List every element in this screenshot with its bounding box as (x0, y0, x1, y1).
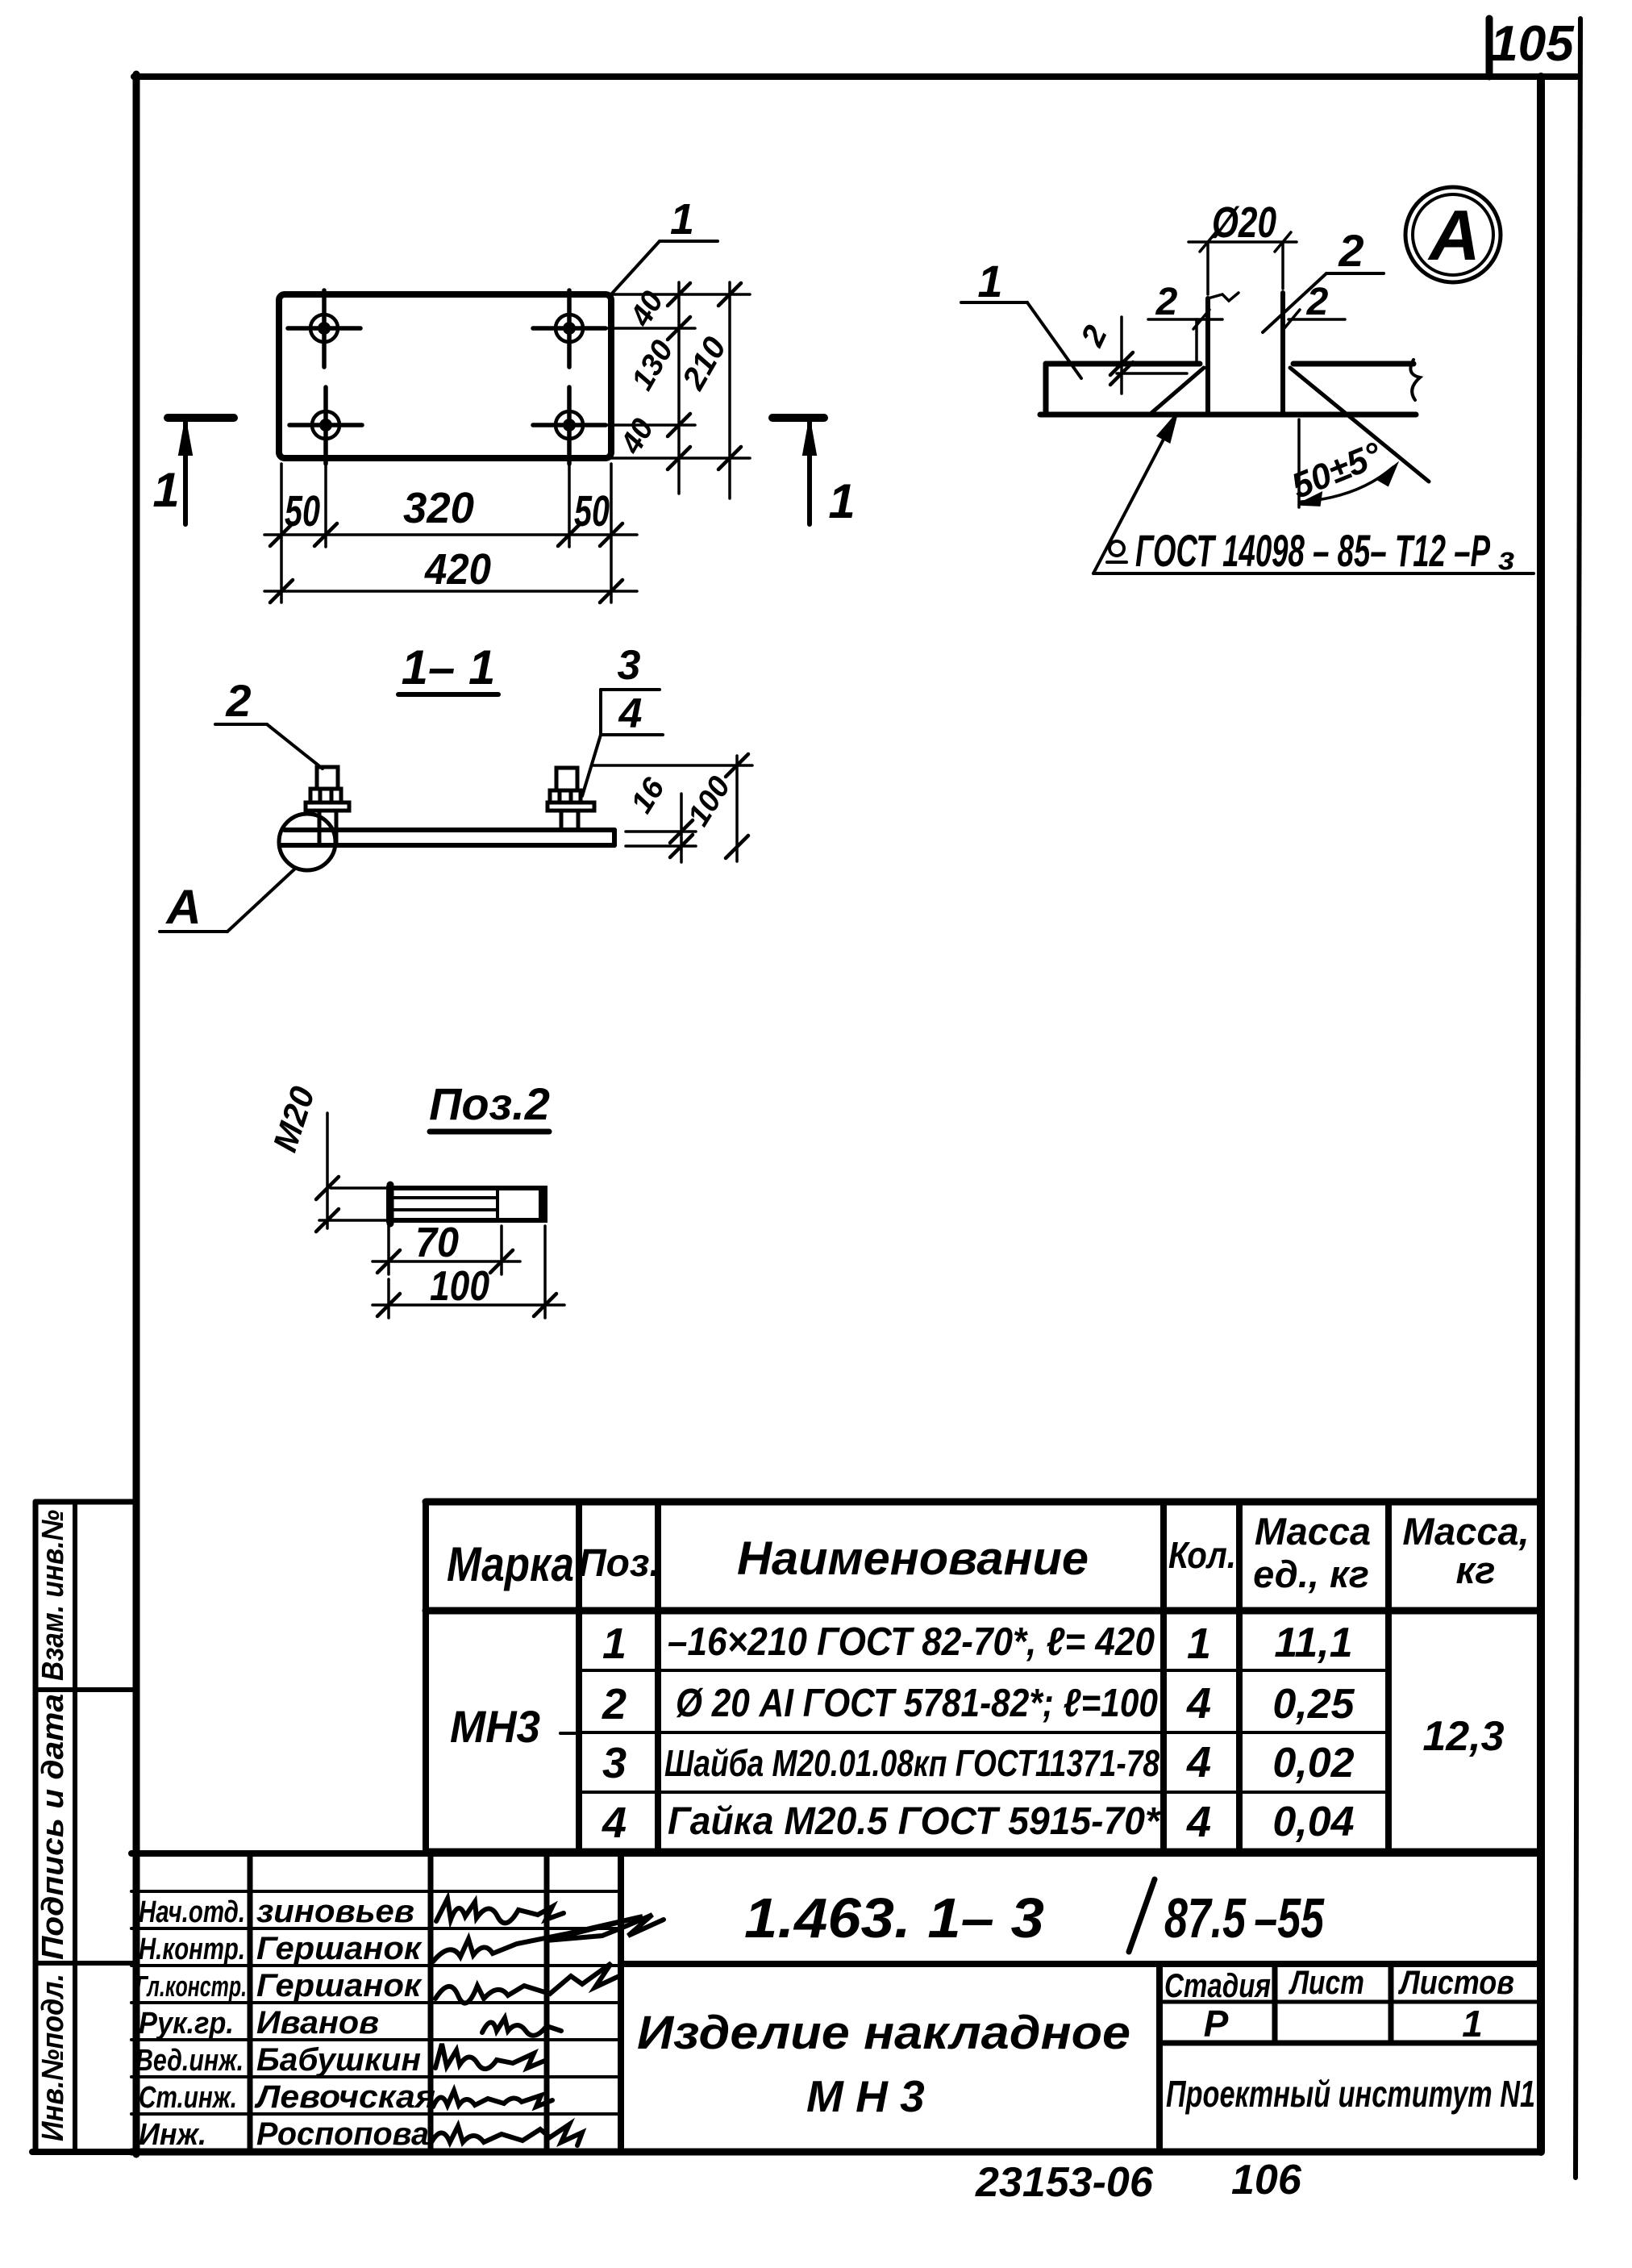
strip row line 2 (35, 1961, 134, 1966)
svg-text:Левочская: Левочская (254, 2079, 435, 2115)
svg-text:Взам. инв.№: Взам. инв.№ (36, 1510, 70, 1681)
svg-text:2: 2 (1155, 281, 1178, 323)
leader 1 of plate (610, 241, 718, 295)
TITLE BLOCK (131, 1853, 1541, 2152)
detail circle label A (1405, 187, 1501, 282)
weld cone right with angle leg (1290, 368, 1429, 482)
strip row line 1 (35, 1687, 134, 1692)
svg-text:3: 3 (618, 642, 641, 689)
svg-text:Н.контр.: Н.контр. (139, 1932, 245, 1966)
svg-text:ГОСТ 14098 – 85– Т12 –Р: ГОСТ 14098 – 85– Т12 –Р (1135, 525, 1490, 576)
svg-text:Поз.: Поз. (578, 1542, 660, 1585)
stadia row bottom (1159, 2041, 1541, 2046)
row line 2 (579, 1731, 1388, 1734)
svg-text:–16×210 ГОСТ 82-70*, ℓ= 420: –16×210 ГОСТ 82-70*, ℓ= 420 (668, 1620, 1155, 1664)
svg-text:Проектный институт N1: Проектный институт N1 (1166, 2073, 1535, 2115)
svg-text:Масса: Масса (1255, 1510, 1371, 1553)
signature col line 1 (248, 1853, 253, 2152)
svg-text:70: 70 (415, 1219, 459, 1266)
column line Poz/Naimenovanie (655, 1502, 661, 1852)
table left border (423, 1502, 429, 1852)
angle 50+-5 (1299, 419, 1396, 507)
designation row bottom line (621, 1961, 1541, 1967)
svg-text:0,04: 0,04 (1272, 1799, 1354, 1845)
svg-text:1.463. 1– 3: 1.463. 1– 3 (744, 1887, 1044, 1949)
svg-text:1: 1 (1462, 2003, 1483, 2045)
svg-text:11,1: 11,1 (1274, 1620, 1352, 1666)
svg-text:Лист: Лист (1289, 1963, 1364, 2001)
svg-text:Гершанок: Гершанок (256, 1968, 423, 2003)
LEFT MARGIN STRIP (32, 1502, 137, 2152)
svg-text:Изделие накладное: Изделие накладное (637, 2007, 1130, 2059)
svg-text:0,02: 0,02 (1272, 1740, 1354, 1786)
svg-text:40: 40 (614, 413, 660, 460)
svg-text:Поз.2: Поз.2 (429, 1078, 550, 1129)
svg-text:1: 1 (602, 1620, 627, 1668)
svg-text:Ø 20 АI ГОСТ 5781-82*; ℓ=100: Ø 20 АI ГОСТ 5781-82*; ℓ=100 (676, 1682, 1158, 1725)
dim 100 (373, 1226, 564, 1318)
section mark left (168, 418, 234, 524)
svg-text:Инв.№подл.: Инв.№подл. (36, 1974, 70, 2141)
section mark right (772, 418, 824, 524)
leader 1 detail (961, 302, 1081, 378)
dim M20 (316, 1113, 387, 1232)
svg-text:1: 1 (828, 474, 855, 528)
plate outline pos.1 (279, 294, 611, 458)
svg-text:50: 50 (574, 487, 610, 536)
svg-text:Рук.гр.: Рук.гр. (139, 2007, 234, 2041)
svg-text:Подпись и дата: Подпись и дата (36, 1694, 70, 1960)
designation slash (1129, 1879, 1155, 1952)
page number tick (1486, 19, 1493, 77)
svg-text:40: 40 (623, 286, 670, 332)
plate section left part (1040, 364, 1416, 415)
svg-text:МН3: МН3 (450, 1701, 540, 1752)
right bolt assembly (547, 768, 594, 830)
svg-text:з: з (1498, 541, 1514, 577)
svg-text:зиновьев: зиновьев (256, 1894, 414, 1929)
column line Kol/Massa ed (1236, 1502, 1243, 1852)
dimension 50-320-50 (264, 461, 637, 602)
tick in Marka column (560, 1732, 579, 1735)
bolt pos.2 in hole (1208, 293, 1283, 415)
svg-text:210: 210 (676, 331, 734, 397)
dim 2 right top (1284, 310, 1345, 329)
svg-text:320: 320 (403, 484, 474, 532)
svg-text:1: 1 (152, 463, 179, 517)
strip inner column line (73, 1502, 77, 2152)
column line Marka/Poz (576, 1502, 582, 1852)
svg-text:12,3: 12,3 (1422, 1713, 1504, 1760)
svg-text:106: 106 (1231, 2157, 1302, 2203)
svg-text:А: А (164, 880, 201, 934)
svg-text:Ø20: Ø20 (1212, 198, 1276, 247)
svg-text:87.5 –55: 87.5 –55 (1164, 1887, 1325, 1949)
stadia header underline (1159, 2000, 1541, 2004)
frame top border (134, 73, 1577, 80)
svg-text:4: 4 (1186, 1798, 1211, 1846)
svg-text:4: 4 (602, 1799, 627, 1847)
svg-text:Кол.: Кол. (1168, 1534, 1236, 1576)
svg-text:Инж.: Инж. (139, 2118, 206, 2152)
svg-text:Р: Р (1204, 2003, 1229, 2045)
svg-text:4: 4 (1186, 1738, 1211, 1786)
svg-text:100: 100 (430, 1263, 489, 1310)
svg-text:420: 420 (424, 545, 491, 594)
weld designation GOST 14098 (1093, 416, 1534, 573)
svg-text:Марка: Марка (447, 1537, 574, 1591)
svg-text:Нач.отд.: Нач.отд. (139, 1895, 245, 1929)
weld symbol small o (1110, 541, 1124, 556)
left bolt assembly (306, 767, 349, 845)
svg-text:Гайка М20.5 ГОСТ 5915-70*: Гайка М20.5 ГОСТ 5915-70* (668, 1800, 1161, 1843)
signature col line 3 (544, 1853, 550, 2152)
svg-text:105: 105 (1490, 16, 1575, 72)
title block outer top (131, 1850, 1541, 1857)
frame left border (133, 74, 140, 2154)
svg-text:Гершанок: Гершанок (256, 1931, 423, 1966)
dim 2 left top (1148, 310, 1222, 361)
plate strip section (280, 830, 614, 845)
weld cone left (1151, 368, 1204, 413)
svg-text:4: 4 (1186, 1679, 1211, 1728)
row line 3 (579, 1791, 1388, 1794)
plate section right part (1293, 361, 1413, 367)
svg-text:3: 3 (602, 1739, 627, 1787)
svg-text:2: 2 (602, 1680, 627, 1728)
dimension 420 (264, 580, 637, 602)
strip outer border (33, 1502, 39, 2152)
svg-text:130: 130 (626, 335, 681, 396)
svg-text:1– 1: 1– 1 (402, 640, 496, 694)
svg-text:16: 16 (625, 772, 672, 819)
svg-text:Гл.констр.: Гл.констр. (135, 1970, 247, 2003)
signature col line 2 (428, 1853, 434, 2152)
svg-text:кг: кг (1456, 1549, 1496, 1591)
signature squiggles (431, 1899, 664, 2145)
svg-text:М Н 3: М Н 3 (806, 2071, 925, 2121)
dimension 40-130-40 vertical (611, 282, 750, 494)
hole bottom-left (289, 387, 362, 464)
svg-text:2: 2 (1338, 225, 1363, 276)
frame right border (1537, 77, 1545, 2152)
svg-text:23153-06: 23153-06 (975, 2159, 1154, 2206)
svg-text:1: 1 (1187, 1620, 1211, 1668)
detail boundary circle A (279, 814, 335, 870)
dim 70 (373, 1226, 520, 1274)
svg-text:50: 50 (285, 487, 320, 536)
table bottom border (426, 1849, 1541, 1856)
svg-text:Ст.инж.: Ст.инж. (139, 2081, 237, 2115)
leader 2 detail (1263, 273, 1384, 332)
dim 100 section (593, 754, 752, 861)
svg-text:М20: М20 (265, 1082, 322, 1156)
hole top-left (288, 290, 360, 367)
sheet right edge line (1576, 19, 1580, 2178)
signature row lines (131, 1890, 621, 1893)
svg-text:Стадия: Стадия (1164, 1966, 1271, 2004)
svg-text:2: 2 (1074, 320, 1114, 352)
svg-text:Шайба М20.01.08кп ГОСТ11371-78: Шайба М20.01.08кп ГОСТ11371-78 (664, 1742, 1159, 1784)
svg-text:2: 2 (225, 675, 251, 726)
svg-text:А: А (1427, 195, 1480, 275)
dim F20 (1189, 232, 1297, 294)
title block bottom (131, 2149, 1541, 2156)
svg-text:Листов: Листов (1397, 1963, 1514, 2001)
svg-text:Наименование: Наименование (737, 1532, 1089, 1585)
column line Massa ed/Massa (1385, 1502, 1392, 1852)
plate right break mark (1410, 360, 1420, 400)
svg-text:Роспопова: Роспопова (256, 2116, 429, 2152)
svg-text:0,25: 0,25 (1272, 1681, 1355, 1728)
table top border (426, 1499, 1541, 1506)
svg-text:ед., кг: ед., кг (1253, 1553, 1369, 1595)
svg-text:1: 1 (977, 256, 1002, 306)
SPEC TABLE (426, 1502, 1541, 1852)
row line 1 (579, 1669, 1388, 1672)
stadia box col lines (1272, 1964, 1278, 2043)
svg-text:Иванов: Иванов (256, 2005, 379, 2041)
svg-text:1: 1 (670, 195, 694, 244)
svg-text:Бабушкин: Бабушкин (256, 2042, 421, 2078)
table header bottom line (426, 1607, 1541, 1615)
signature/big block divider (618, 1853, 624, 2152)
dim 2 left vertical (1110, 317, 1187, 394)
dim 16 section (626, 794, 696, 862)
dimension 210 vertical (718, 282, 741, 498)
bolt pos.2 drawing (389, 1185, 545, 1224)
svg-text:4: 4 (618, 690, 643, 737)
svg-text:Вед.инж.: Вед.инж. (135, 2044, 244, 2078)
hole bottom-right (533, 387, 695, 464)
svg-text:Масса,: Масса, (1402, 1510, 1529, 1553)
stadia box left line (1156, 1964, 1163, 2152)
hole top-right (533, 290, 695, 367)
column line Naimenovanie/Kol (1160, 1502, 1167, 1852)
